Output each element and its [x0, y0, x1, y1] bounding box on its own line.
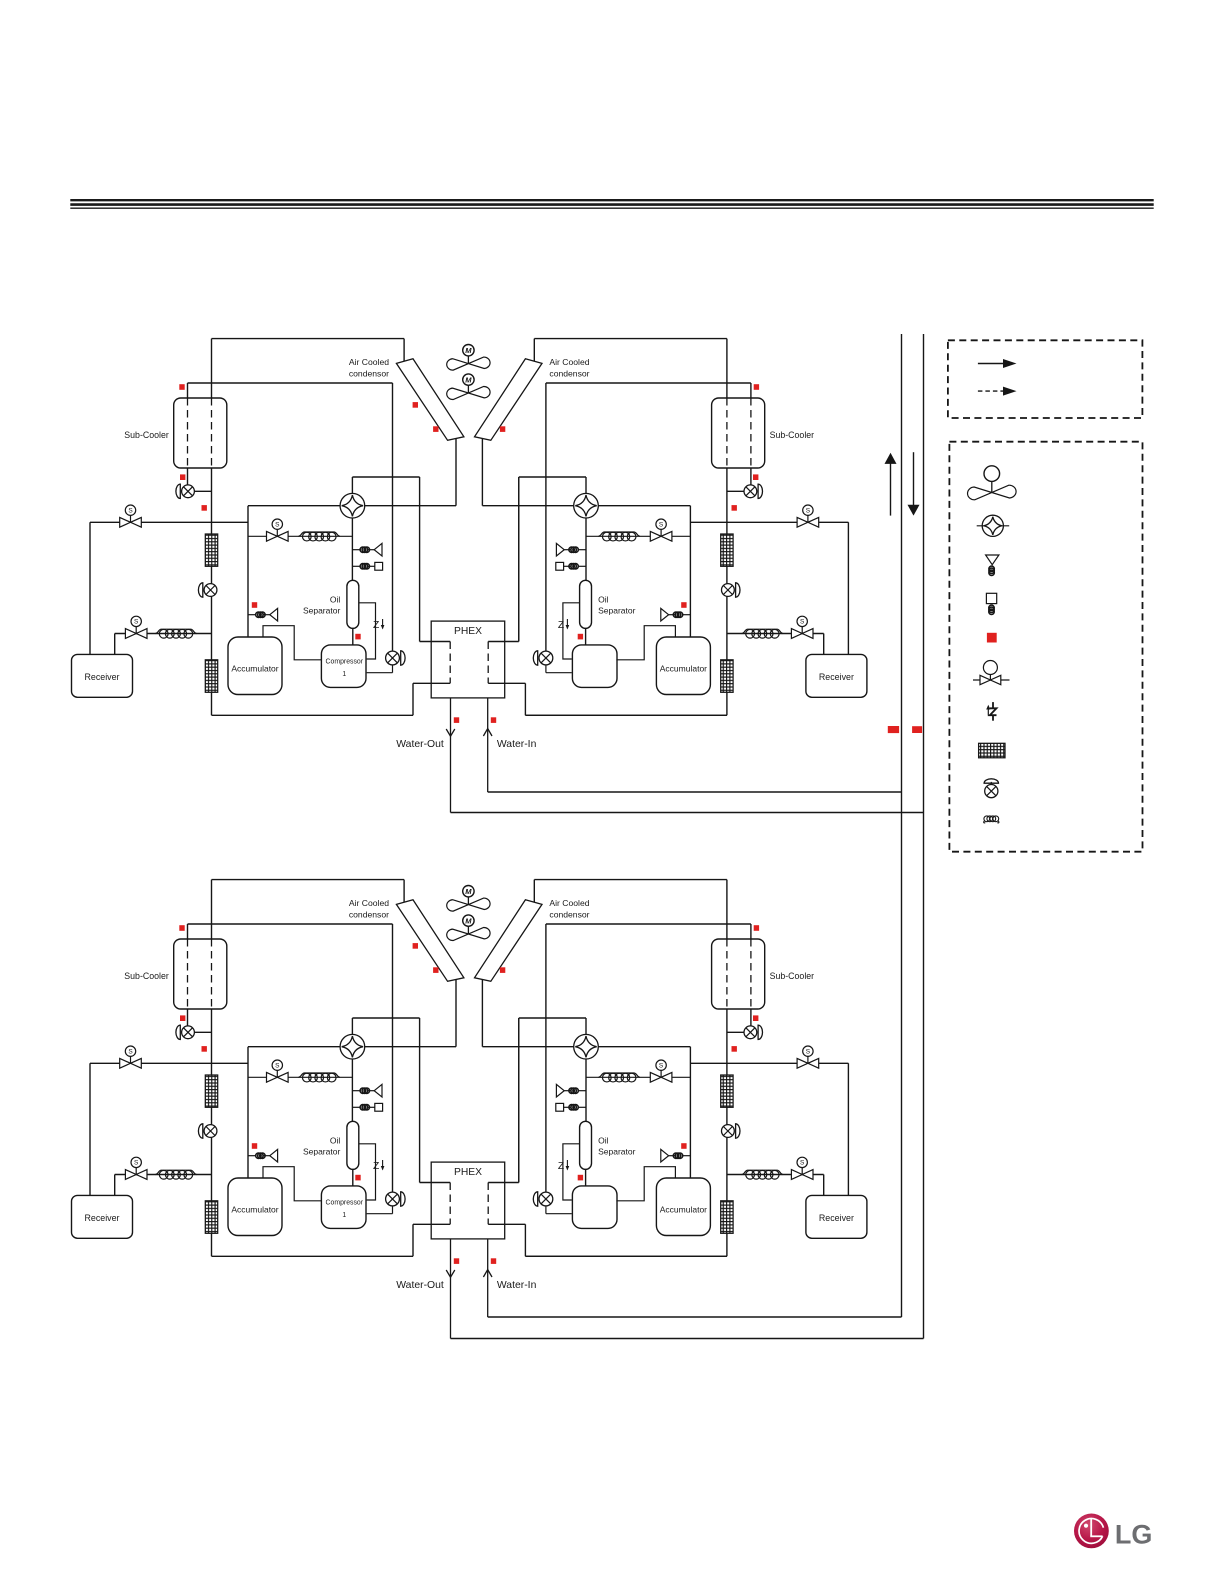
red sensor mark compressor discharge (left) [355, 1175, 360, 1181]
wire four-way valve bottom pipe (right) [585, 518, 587, 580]
svg-text:Receiver: Receiver [819, 1213, 854, 1223]
wire receiver inlet drop (right) [847, 522, 849, 654]
four-way valve (right) [574, 493, 599, 518]
svg-text:Z: Z [373, 1161, 379, 1172]
svg-text:condensor: condensor [549, 369, 589, 379]
sub-cooler internal dashed tubes (right) [750, 398, 752, 468]
wire PHEX top-right refrigerant [488, 1182, 519, 1184]
svg-text:S: S [275, 521, 280, 528]
compressor (left) [321, 645, 366, 688]
legend shut-off valve symbol [973, 661, 1010, 685]
wire compressor discharge (right) [546, 1213, 572, 1215]
wire suction bottom line (left) [212, 1255, 414, 1257]
wire suction bottom line (right) [525, 1255, 727, 1257]
capillary coil injection (right) [598, 1073, 640, 1077]
wire four-way valve top pipe (left) [351, 1018, 353, 1034]
sub-cooler vessel (left) [174, 398, 227, 468]
svg-text:Receiver: Receiver [819, 672, 854, 682]
svg-text:LG: LG [1115, 1520, 1153, 1550]
check valve with spring discharge (left) [352, 549, 360, 551]
svg-text:Sub-Cooler: Sub-Cooler [124, 971, 169, 981]
wire receiver inlet drop (right) [847, 1063, 849, 1195]
wire PHEX top-right refrigerant [488, 641, 519, 643]
strainer lower (right) [721, 1201, 733, 1234]
svg-text:Receiver: Receiver [84, 672, 119, 682]
PHEX plate heat exchanger [431, 621, 505, 698]
water inlet pipe with arrow [487, 698, 489, 792]
capillary coil injection (right) [598, 532, 640, 536]
spring damper with square port (left) [352, 1106, 360, 1108]
wire compressor-section left edge (left) [247, 1047, 249, 1178]
wire four-way valve bottom pipe (left) [351, 1059, 353, 1121]
wire condenser top stub (left) [403, 880, 405, 903]
water outlet pipe with arrow [450, 1239, 452, 1339]
accumulator vessel (left) [228, 637, 282, 695]
svg-text:M: M [465, 887, 472, 896]
wire receiver outlet line (right) [727, 633, 824, 635]
wire injection line (right) [586, 1076, 690, 1078]
wire sub-cooler feed line (right) [546, 382, 751, 384]
wire oil return line (right) [563, 603, 580, 659]
wire condenser top stub (right) [533, 880, 535, 903]
wire four-way valve bottom pipe (right) [585, 1059, 587, 1121]
wire sub-cooler feed line (left) [188, 923, 393, 925]
wire sub-cooler feed line (right) [546, 923, 751, 925]
wire oil separator to compressor (right) [585, 1169, 587, 1185]
legend square port with spring symbol [986, 593, 996, 603]
water inlet pipe with arrow [487, 1239, 489, 1317]
capillary coil injection (left) [298, 532, 340, 536]
wire sub-cooler outlet (right) [750, 468, 752, 485]
svg-text:Accumulator: Accumulator [660, 1205, 707, 1215]
shut-off valve S receiver outlet (left) [125, 1157, 147, 1179]
svg-text:1: 1 [342, 1212, 346, 1219]
red sensor mark water pipe left [888, 726, 899, 733]
capillary coil receiver outlet (left) [155, 1170, 196, 1174]
wire condenser top stub (right) [533, 339, 535, 362]
svg-text:Oil: Oil [330, 1135, 341, 1145]
wire suction elbow (left) [263, 1167, 322, 1201]
accumulator vessel (right) [656, 1178, 710, 1236]
svg-text:Air Cooled: Air Cooled [549, 357, 589, 367]
receiver vessel (left) [72, 1195, 133, 1238]
svg-text:Sub-Cooler: Sub-Cooler [770, 430, 815, 440]
PHEX internal dashed circuits [449, 642, 451, 684]
wire service valve to main riser (right) [727, 490, 744, 492]
svg-text:Water-In: Water-In [497, 739, 537, 750]
shut-off valve S receiver outlet (left) [125, 616, 147, 638]
wire sub-cooler feed line (left) [188, 382, 393, 384]
wire sub-cooler outlet (right) [750, 1009, 752, 1026]
oil separator vessel (left) [347, 1121, 359, 1169]
wire compressor discharge (left) [367, 672, 393, 674]
strainer upper (right) [721, 534, 733, 566]
red sensor mark water out [454, 1258, 459, 1264]
svg-text:Z: Z [558, 620, 564, 631]
shut-off valve S liquid header (right) [797, 1046, 819, 1068]
wire service valve to main riser (left) [194, 1031, 211, 1033]
service valve discharge (right) [539, 1192, 553, 1206]
receiver vessel (right) [806, 654, 867, 697]
wire suction elbow (left) [263, 626, 322, 660]
service valve main riser (left) [204, 1125, 217, 1138]
service valve main riser (left) [204, 584, 217, 597]
legend strainer symbol [979, 743, 1005, 758]
svg-text:Separator: Separator [303, 606, 340, 616]
capillary coil receiver outlet (left) [155, 629, 196, 633]
red sensor mark accumulator (left) [252, 602, 257, 608]
red sensor mark compressor discharge (right) [578, 634, 583, 640]
shut-off valve S receiver outlet (right) [791, 1157, 813, 1179]
fan motor lower [463, 915, 474, 926]
red sensor mark water pipe right [912, 726, 922, 733]
wire four-way valve top pipe (right) [585, 477, 587, 493]
check valve with spring discharge (right) [578, 549, 586, 551]
service valve sub-cooler (right) [744, 485, 757, 498]
wire injection line (right) [586, 535, 690, 537]
svg-text:Separator: Separator [598, 1147, 635, 1157]
flow arrow up [890, 463, 892, 516]
svg-text:S: S [128, 1048, 133, 1055]
red sensor mark water out [454, 717, 459, 723]
svg-text:Oil: Oil [330, 594, 341, 604]
service valve discharge (right) [539, 651, 553, 665]
svg-text:PHEX: PHEX [454, 626, 482, 637]
wire suction elbow (right) [616, 1167, 675, 1201]
oil separator vessel (left) [347, 580, 359, 628]
svg-text:S: S [659, 521, 664, 528]
wire PHEX bottom-left refrigerant [413, 682, 450, 684]
strainer lower (right) [721, 660, 733, 693]
strainer upper (left) [205, 1075, 217, 1107]
red sensor mark sub-cooler top (left) [179, 384, 184, 390]
fan motor upper [463, 345, 474, 356]
wire main liquid riser (left) [211, 339, 213, 716]
check valve with spring accumulator (right) [682, 1155, 690, 1157]
red sensor mark condenser (right) [500, 967, 505, 973]
fan motor upper [463, 886, 474, 897]
capillary coil injection (left) [298, 1073, 340, 1077]
wire outer top line (right) [534, 879, 727, 881]
svg-text:Oil: Oil [598, 1135, 609, 1145]
receiver vessel (right) [806, 1195, 867, 1238]
sub-cooler internal dashed tubes (right) [750, 939, 752, 1009]
red sensor mark main riser (right) [732, 1046, 737, 1052]
wire outer top line (left) [212, 879, 405, 881]
capillary coil receiver outlet (right) [742, 629, 783, 633]
wire water-out header [451, 1338, 924, 1340]
wire injection line (left) [248, 535, 352, 537]
red sensor mark condenser (left) [433, 426, 438, 432]
svg-text:S: S [800, 1160, 805, 1167]
accumulator vessel (left) [228, 1178, 282, 1236]
wire PHEX bottom-right refrigerant [488, 682, 525, 684]
flow arrow down [913, 452, 915, 505]
red sensor mark compressor discharge (left) [355, 634, 360, 640]
wire compressor-section top line (left) [248, 505, 340, 507]
svg-text:S: S [134, 1160, 139, 1167]
wire service valve to main riser (left) [194, 490, 211, 492]
wire compressor-section top line (right) [598, 505, 690, 507]
LG logo emblem [1074, 1514, 1109, 1549]
wire hot-gas vertical (right) [545, 924, 547, 1192]
wire compressor-section left edge (left) [247, 506, 249, 637]
check valve with spring accumulator (left) [248, 614, 256, 616]
wire water-in header [488, 1316, 902, 1318]
shut-off valve S liquid header (left) [120, 505, 142, 527]
wire suction bottom line (right) [525, 714, 727, 716]
red sensor mark condenser (right) [500, 426, 505, 432]
svg-text:Sub-Cooler: Sub-Cooler [124, 430, 169, 440]
shut-off valve S injection (left) [267, 519, 289, 541]
oil separator vessel (right) [580, 580, 592, 628]
red sensor mark sub-cooler outlet (left) [180, 474, 185, 480]
wire liquid header (right) [690, 521, 848, 523]
red sensor mark condenser top left [413, 402, 418, 408]
wire four-way to condenser drop (left) [365, 1046, 456, 1048]
wire water-out header [451, 812, 924, 814]
compressor (right) [572, 1186, 617, 1229]
check valve with spring accumulator (right) [682, 614, 690, 616]
svg-text:S: S [806, 507, 811, 514]
water supply pipe vertical [901, 334, 903, 1317]
wire PHEX bottom-left refrigerant [413, 1223, 450, 1225]
svg-text:M: M [465, 346, 472, 355]
wire outer top line (left) [212, 338, 405, 340]
sub-cooler vessel (left) [174, 939, 227, 1009]
wire compressor discharge (left) [367, 1213, 393, 1215]
wire four-way to condenser drop (left) [365, 505, 456, 507]
service valve main riser (right) [722, 1125, 735, 1138]
shut-off valve S liquid header (right) [797, 505, 819, 527]
wire receiver inlet drop (left) [89, 1063, 91, 1195]
strainer upper (left) [205, 534, 217, 566]
legend capillary coil symbol [984, 821, 999, 823]
wire oil separator to compressor (left) [352, 628, 354, 644]
svg-text:Compressor: Compressor [326, 659, 364, 666]
wire oil return line (left) [359, 1144, 376, 1200]
spring damper with square port (right) [578, 1106, 586, 1108]
wire main liquid riser (right) [726, 339, 728, 716]
red sensor mark water in [491, 1258, 496, 1264]
legend dashed flow arrow [978, 390, 1003, 392]
PHEX internal dashed circuits [449, 1183, 451, 1225]
service valve discharge (left) [386, 651, 400, 665]
red sensor mark water in [491, 717, 496, 723]
wire outer top line (right) [534, 338, 727, 340]
legend fan symbol [984, 466, 1000, 482]
wire sub-cooler outlet (left) [187, 1009, 189, 1026]
svg-text:Separator: Separator [303, 1147, 340, 1157]
svg-text:Air Cooled: Air Cooled [349, 357, 389, 367]
svg-text:S: S [134, 619, 139, 626]
red sensor mark main riser (right) [732, 505, 737, 511]
wire four-way valve top pipe (left) [351, 477, 353, 493]
svg-text:S: S [659, 1062, 664, 1069]
svg-text:M: M [465, 375, 472, 384]
wire main liquid riser (left) [211, 880, 213, 1257]
service valve sub-cooler (left) [182, 485, 195, 498]
four-way valve (left) [340, 493, 365, 518]
shut-off valve S injection (right) [650, 519, 672, 541]
wire compressor-section top line (left) [248, 1046, 340, 1048]
wire condenser top stub (left) [403, 339, 405, 362]
PHEX plate heat exchanger [431, 1162, 505, 1239]
wire four-way valve bottom pipe (left) [351, 518, 353, 580]
sub-cooler vessel (right) [712, 398, 765, 468]
wire PHEX top-left refrigerant [420, 1182, 451, 1184]
wire receiver outlet line (left) [115, 633, 212, 635]
wire PHEX bottom-right refrigerant [488, 1223, 525, 1225]
four-way valve (right) [574, 1034, 599, 1059]
check valve with spring accumulator (left) [248, 1155, 256, 1157]
receiver vessel (left) [72, 654, 133, 697]
wire compressor-section top line (right) [598, 1046, 690, 1048]
red sensor mark condenser top left [413, 943, 418, 949]
wire sub-cooler outlet (left) [187, 468, 189, 485]
wire hot-gas vertical (left) [392, 924, 394, 1192]
service valve main riser (right) [722, 584, 735, 597]
legend solid flow arrow [978, 363, 1004, 365]
wire main liquid riser (right) [726, 880, 728, 1257]
air cooled condenser coil (right) [475, 900, 543, 982]
svg-text:Separator: Separator [598, 606, 635, 616]
red sensor mark main riser (left) [202, 505, 207, 511]
red sensor mark compressor discharge (right) [578, 1175, 583, 1181]
svg-text:condensor: condensor [349, 910, 389, 920]
svg-text:Receiver: Receiver [84, 1213, 119, 1223]
svg-text:condensor: condensor [549, 910, 589, 920]
svg-text:Water-Out: Water-Out [396, 1280, 444, 1291]
service valve discharge (left) [386, 1192, 400, 1206]
red sensor mark sub-cooler top (left) [179, 925, 184, 931]
check valve with spring discharge (right) [578, 1090, 586, 1092]
wire hot-gas vertical (left) [392, 383, 394, 651]
svg-text:Accumulator: Accumulator [231, 664, 278, 674]
wire compressor-section left edge (right) [689, 1047, 691, 1178]
svg-text:Water-Out: Water-Out [396, 739, 444, 750]
spring damper with square port (right) [578, 565, 586, 567]
sub-cooler internal dashed tubes (left) [187, 939, 189, 1009]
wire four-way to condenser drop (right) [482, 1046, 573, 1048]
svg-text:Water-In: Water-In [497, 1280, 537, 1291]
red sensor mark accumulator (right) [681, 602, 686, 608]
wire liquid header (left) [90, 521, 248, 523]
legend red sensor mark [987, 633, 997, 643]
svg-text:M: M [465, 916, 472, 925]
shut-off valve S injection (left) [267, 1060, 289, 1082]
wire oil separator to compressor (left) [352, 1169, 354, 1185]
oil separator vessel (right) [580, 1121, 592, 1169]
svg-text:S: S [806, 1048, 811, 1055]
wire water-in header [488, 791, 902, 793]
svg-text:1: 1 [342, 671, 346, 678]
sub-cooler vessel (right) [712, 939, 765, 1009]
air cooled condenser coil (right) [475, 359, 543, 441]
wire oil separator to compressor (right) [585, 628, 587, 644]
wire four-way valve top pipe (right) [585, 1018, 587, 1034]
compressor (right) [572, 645, 617, 688]
wire liquid header (left) [90, 1062, 248, 1064]
legend service valve symbol [985, 785, 998, 798]
svg-text:Accumulator: Accumulator [231, 1205, 278, 1215]
wire compressor-section left edge (right) [689, 506, 691, 637]
wire suction bottom line (left) [212, 714, 414, 716]
wire four-way to condenser drop (right) [482, 505, 573, 507]
legend box flow arrows [948, 340, 1143, 418]
air cooled condenser coil (left) [396, 359, 464, 441]
legend four-way valve symbol [977, 525, 1010, 527]
fan motor lower [463, 374, 474, 385]
svg-text:Sub-Cooler: Sub-Cooler [770, 971, 815, 981]
red sensor mark sub-cooler outlet (right) [753, 1015, 758, 1021]
red sensor mark sub-cooler outlet (right) [753, 474, 758, 480]
svg-text:Oil: Oil [598, 594, 609, 604]
check valve with spring discharge (left) [352, 1090, 360, 1092]
wire PHEX top-left refrigerant [420, 641, 451, 643]
svg-text:PHEX: PHEX [454, 1167, 482, 1178]
svg-text:Z: Z [373, 620, 379, 631]
wire service valve to main riser (right) [727, 1031, 744, 1033]
red sensor mark accumulator (right) [681, 1143, 686, 1149]
shut-off valve S receiver outlet (right) [791, 616, 813, 638]
wire suction elbow (right) [616, 626, 675, 660]
capillary coil receiver outlet (right) [742, 1170, 783, 1174]
wire receiver outlet line (right) [727, 1174, 824, 1176]
service valve sub-cooler (left) [182, 1026, 195, 1039]
legend electronic expansion valve symbol [992, 702, 994, 708]
wire liquid header (right) [690, 1062, 848, 1064]
red sensor mark accumulator (left) [252, 1143, 257, 1149]
sub-cooler internal dashed tubes (left) [187, 398, 189, 468]
spring damper with square port (left) [352, 565, 360, 567]
wire oil return line (left) [359, 603, 376, 659]
wire oil return line (right) [563, 1144, 580, 1200]
wire receiver inlet drop (left) [89, 522, 91, 654]
red sensor mark main riser (left) [202, 1046, 207, 1052]
svg-text:S: S [800, 619, 805, 626]
red sensor mark condenser (left) [433, 967, 438, 973]
shut-off valve S injection (right) [650, 1060, 672, 1082]
legend box symbols [949, 442, 1142, 852]
svg-text:Compressor: Compressor [326, 1200, 364, 1207]
compressor (left) [321, 1186, 366, 1229]
strainer lower (left) [205, 1201, 217, 1234]
legend check valve with spring symbol [986, 555, 999, 565]
air cooled condenser coil (left) [396, 900, 464, 982]
wire injection line (left) [248, 1076, 352, 1078]
strainer lower (left) [205, 660, 217, 693]
svg-text:S: S [128, 507, 133, 514]
accumulator vessel (right) [656, 637, 710, 695]
wire hot-gas vertical (right) [545, 383, 547, 651]
water return pipe vertical [923, 334, 925, 1339]
wire receiver outlet line (left) [115, 1174, 212, 1176]
shut-off valve S liquid header (left) [120, 1046, 142, 1068]
service valve sub-cooler (right) [744, 1026, 757, 1039]
four-way valve (left) [340, 1034, 365, 1059]
svg-text:Air Cooled: Air Cooled [349, 898, 389, 908]
red sensor mark sub-cooler top (right) [754, 384, 759, 390]
strainer upper (right) [721, 1075, 733, 1107]
svg-text:S: S [275, 1062, 280, 1069]
page header rule [70, 199, 1153, 201]
svg-text:Air Cooled: Air Cooled [549, 898, 589, 908]
red sensor mark sub-cooler outlet (left) [180, 1015, 185, 1021]
wire compressor discharge (right) [546, 672, 572, 674]
red sensor mark sub-cooler top (right) [754, 925, 759, 931]
water outlet pipe with arrow [450, 698, 452, 813]
